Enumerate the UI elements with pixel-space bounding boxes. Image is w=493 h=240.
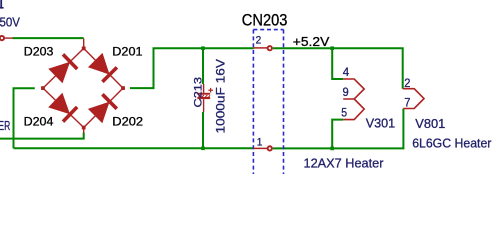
wire heater AC wire to bridge bottom <box>0 133 84 139</box>
bridge bottom corner pin stub <box>83 128 85 134</box>
tube heater V301 <box>343 79 364 120</box>
svg-text:V301: V301 <box>366 116 395 131</box>
svg-text:12AX7 Heater: 12AX7 Heater <box>304 155 385 170</box>
svg-text:5: 5 <box>341 106 347 119</box>
CN203 pin 2 <box>254 47 267 49</box>
diode D201 <box>84 48 123 88</box>
wire bridge + output to riser to +5.2V rail <box>130 48 254 88</box>
CN203 pin 1 <box>254 147 267 149</box>
wire C213 top lead wire <box>202 48 204 84</box>
svg-text:+5.2V: +5.2V <box>293 34 330 49</box>
wire return rail CN203 pin1 to V801 pin 7 <box>273 109 404 149</box>
bridge left corner junction <box>41 86 45 90</box>
svg-text:CN203: CN203 <box>242 12 288 30</box>
junction C213 top <box>201 46 205 50</box>
wire net 50V from transformer pin to bridge top <box>13 37 84 39</box>
svg-text:50V: 50V <box>0 15 21 29</box>
svg-text:ER: ER <box>0 119 10 133</box>
svg-text:D204: D204 <box>24 115 54 129</box>
wire return rail to CN203 pin 1 <box>14 147 254 149</box>
bridge bottom corner junction <box>82 126 86 130</box>
wire +5.2V rail CN203 pin2 to V801 drop <box>273 48 403 88</box>
partial text fragment top-left <box>0 0 2 9</box>
diode D203 <box>43 48 84 88</box>
transformer pin (50V) <box>5 37 13 39</box>
junction return V301 tap <box>330 147 334 151</box>
svg-text:4: 4 <box>343 66 350 79</box>
tube heater V801 <box>403 89 424 109</box>
svg-text:1000uF 16V: 1000uF 16V <box>213 58 227 133</box>
junction +5.2V V301 tap <box>330 46 334 50</box>
bridge top corner junction <box>82 47 86 51</box>
svg-text:2: 2 <box>256 35 262 47</box>
svg-text:2: 2 <box>404 77 410 90</box>
wire V301 pin 5 to return rail <box>332 120 343 149</box>
svg-text:7: 7 <box>404 96 410 109</box>
junction C213 bottom <box>201 147 205 151</box>
bridge top corner pin stub <box>83 39 85 49</box>
wire bridge - output down left side <box>14 88 35 148</box>
diode D202 <box>84 88 123 127</box>
diode D204 <box>43 88 84 127</box>
wire C213 bottom lead wire <box>202 112 204 148</box>
svg-text:1: 1 <box>257 136 263 148</box>
connector CN203 dashed outline <box>253 30 283 174</box>
svg-text:D203: D203 <box>24 44 54 58</box>
svg-text:C213: C213 <box>192 77 204 108</box>
svg-text:V801: V801 <box>415 116 445 131</box>
svg-text:D201: D201 <box>112 44 142 58</box>
capacitor C213 <box>197 84 213 112</box>
svg-text:6L6GC Heater: 6L6GC Heater <box>412 135 492 150</box>
bridge right corner junction <box>121 86 125 90</box>
svg-text:D202: D202 <box>112 115 143 129</box>
svg-text:9: 9 <box>343 86 349 99</box>
wire +5.2V drop to V301 pin 4 <box>332 48 343 79</box>
